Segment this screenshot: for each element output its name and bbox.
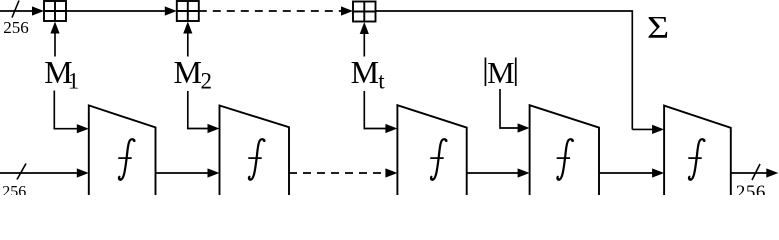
block f1	[89, 105, 156, 196]
XOR box 1	[44, 1, 66, 21]
svg-text:M: M	[174, 54, 202, 90]
svg-text:256: 256	[736, 182, 766, 195]
wire Mt up segment	[363, 28, 365, 57]
bus slash top-left	[12, 1, 19, 18]
arrowhead into XOR box 1	[32, 6, 44, 15]
bus slash bottom-left	[17, 164, 26, 180]
svg-text:Σ: Σ	[647, 10, 669, 45]
wire block3 to block4	[467, 172, 519, 174]
XOR box 3	[353, 2, 376, 22]
wire bottom-left input	[0, 172, 78, 174]
arrowhead into block 3	[385, 168, 397, 177]
arrowhead into block 1	[77, 168, 89, 177]
arrowhead M2 into block 2	[208, 124, 220, 133]
wire box1 to box2	[66, 10, 166, 12]
arrowhead M1 up into box 1	[50, 22, 59, 34]
arrowhead sigma into block 5	[652, 125, 664, 134]
block f5	[664, 106, 731, 196]
arrowhead into block 4	[518, 168, 530, 177]
bus slash output	[752, 164, 760, 180]
wire |M| down into block 4	[500, 89, 519, 128]
wire M2 up segment	[187, 28, 189, 57]
block f4	[530, 105, 599, 196]
block f2	[220, 106, 290, 197]
arrowhead into block 5	[652, 168, 664, 177]
label M1	[44, 54, 79, 93]
svg-text:2: 2	[201, 68, 213, 93]
wire output	[731, 172, 768, 174]
svg-text:M: M	[487, 55, 515, 90]
svg-text:M: M	[351, 54, 379, 90]
wire top-left input	[0, 10, 34, 12]
arrowhead M1 into block 1	[77, 124, 89, 133]
svg-text:t: t	[378, 68, 385, 93]
arrowhead Mt up into box 3	[360, 22, 369, 34]
dashed wire block2 to block3	[289, 172, 386, 174]
wire block1 to block2	[156, 172, 210, 174]
svg-text:256: 256	[3, 18, 29, 37]
XOR box 2	[177, 1, 199, 21]
wire box3 to sigma corner	[376, 11, 633, 129]
block f3	[397, 105, 466, 196]
svg-text:256: 256	[2, 183, 26, 195]
arrowhead |M| into block 4	[518, 123, 530, 132]
arrowhead Mt into block 3	[385, 124, 397, 133]
wire M2 down into block 2	[188, 91, 209, 129]
arrowhead output	[766, 168, 778, 177]
label Mt	[351, 54, 386, 93]
dashed wire box2 to box3	[199, 10, 341, 12]
arrowhead into block 2	[208, 168, 220, 177]
label |M|	[485, 55, 517, 90]
wire Mt down into block 3	[364, 91, 386, 129]
wire sigma into block 5	[632, 128, 653, 130]
wire M1 up segment	[54, 28, 56, 57]
arrowhead into XOR box 2	[165, 6, 177, 15]
wire M1 down into block 1	[54, 91, 78, 129]
arrowhead into XOR box 3	[341, 6, 353, 15]
label M2	[174, 54, 213, 93]
arrowhead M2 up into box 2	[183, 22, 192, 34]
svg-text:1: 1	[68, 68, 80, 93]
wire block4 to block5	[599, 172, 653, 174]
